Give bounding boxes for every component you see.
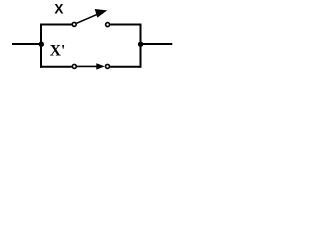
node: right junction dot <box>138 42 143 47</box>
wire: top branch left segment <box>40 24 72 26</box>
switch X' arm arrowhead <box>96 63 105 69</box>
wire: left vertical bus <box>40 24 42 68</box>
svg-text:X': X' <box>50 42 66 59</box>
switch X' left contact <box>72 64 76 68</box>
switch X' arm (closed) <box>77 65 98 67</box>
node: left junction dot <box>39 42 44 47</box>
switch X right contact <box>106 23 110 27</box>
switch X arm arrowhead <box>95 9 108 18</box>
svg-text:X: X <box>54 2 63 17</box>
wire: bottom branch right segment <box>110 66 141 68</box>
wire: right terminal <box>141 43 173 45</box>
switch X' right contact <box>106 64 110 68</box>
wire: bottom branch left segment <box>40 66 72 68</box>
wire: left terminal <box>12 43 41 45</box>
wire: top branch right segment <box>110 24 141 26</box>
switch X left contact <box>72 22 76 26</box>
wire: right vertical bus <box>140 24 142 68</box>
switch X arm (open) <box>77 14 99 23</box>
